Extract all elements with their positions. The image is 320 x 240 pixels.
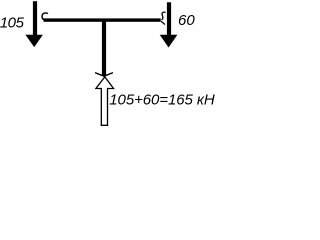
force arrow 60 head: [160, 35, 178, 48]
svg-text:105: 105: [0, 14, 25, 31]
beam (horizontal member): [44, 18, 161, 21]
svg-text:60: 60: [178, 12, 195, 29]
right cut squiggle: [161, 12, 166, 24]
resultant hollow arrow: [96, 77, 114, 125]
middle load shaft: [102, 21, 106, 76]
svg-text:105+60=165 кН: 105+60=165 кН: [109, 91, 215, 108]
force arrow 60 shaft: [167, 2, 171, 36]
force arrow 105 shaft: [33, 1, 37, 36]
left cut squiggle: [42, 13, 48, 20]
middle load arrowhead barbs: [95, 73, 113, 77]
force arrow 105 head: [25, 35, 43, 47]
